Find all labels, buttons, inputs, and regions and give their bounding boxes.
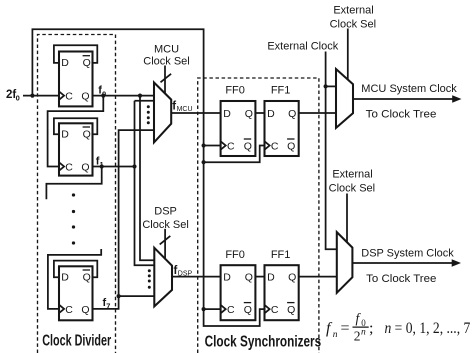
svg-text:Q: Q: [245, 271, 253, 283]
svg-text:FF0: FF0: [225, 85, 245, 97]
svg-text:n = 0, 1, 2, ..., 7: n = 0, 1, 2, ..., 7: [385, 320, 471, 337]
svg-text:C: C: [271, 140, 279, 152]
svg-text:C: C: [65, 162, 73, 174]
svg-text:MCU: MCU: [177, 106, 193, 113]
svg-text:C: C: [271, 304, 279, 316]
svg-text:Q: Q: [244, 304, 252, 316]
svg-text:Q: Q: [288, 271, 296, 283]
svg-text:=: =: [341, 320, 350, 337]
svg-text:Clock Sel: Clock Sel: [329, 183, 375, 195]
svg-text:C: C: [65, 304, 73, 316]
svg-text:MCU System Clock: MCU System Clock: [361, 83, 457, 95]
svg-text:Q: Q: [83, 271, 91, 283]
svg-text:D: D: [267, 108, 275, 120]
svg-text:n: n: [333, 330, 338, 340]
svg-text:1: 1: [100, 160, 104, 169]
svg-text:Q: Q: [81, 162, 89, 174]
svg-text:D: D: [61, 128, 69, 140]
svg-text:Q: Q: [83, 128, 91, 140]
svg-text:DSP: DSP: [178, 270, 193, 277]
svg-text:Q: Q: [81, 304, 89, 316]
svg-text:Q: Q: [287, 304, 295, 316]
svg-text:External Clock: External Clock: [267, 40, 338, 52]
svg-text:FF0: FF0: [225, 249, 245, 261]
svg-text:Q: Q: [83, 57, 91, 69]
svg-text:D: D: [223, 108, 231, 120]
svg-text:FF1: FF1: [271, 85, 291, 97]
svg-text:;: ;: [369, 320, 373, 337]
svg-text:Q: Q: [244, 140, 252, 152]
svg-text:To Clock Tree: To Clock Tree: [366, 273, 436, 285]
svg-text:DSP: DSP: [154, 206, 177, 218]
svg-text:Clock Sel: Clock Sel: [142, 219, 188, 231]
svg-text:DSP System Clock: DSP System Clock: [361, 247, 454, 259]
svg-text:D: D: [267, 271, 275, 283]
svg-text:0: 0: [102, 89, 106, 98]
svg-text:Q: Q: [288, 108, 296, 120]
svg-text:To Clock Tree: To Clock Tree: [366, 109, 437, 121]
svg-text:D: D: [61, 57, 69, 69]
svg-text:External: External: [333, 5, 373, 17]
svg-text:MCU: MCU: [154, 43, 179, 55]
svg-text:Clock Sel: Clock Sel: [330, 19, 376, 31]
svg-text:D: D: [61, 271, 69, 283]
svg-text:D: D: [223, 271, 231, 283]
svg-text:Q: Q: [287, 140, 295, 152]
svg-text:C: C: [227, 140, 235, 152]
svg-text:Clock Sel: Clock Sel: [143, 56, 189, 68]
svg-text:C: C: [65, 91, 73, 103]
svg-text:Q: Q: [245, 108, 253, 120]
svg-text:Clock Synchronizers: Clock Synchronizers: [205, 333, 322, 350]
svg-text:n: n: [361, 328, 366, 338]
svg-text:C: C: [227, 304, 235, 316]
svg-text:External: External: [332, 169, 372, 181]
svg-text:2: 2: [354, 329, 361, 344]
svg-text:Q: Q: [81, 91, 89, 103]
svg-text:0: 0: [16, 93, 20, 102]
svg-text:Clock Divider: Clock Divider: [42, 332, 111, 349]
svg-text:FF1: FF1: [271, 249, 291, 261]
svg-text:7: 7: [106, 302, 110, 311]
